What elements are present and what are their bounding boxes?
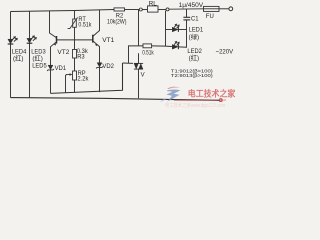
LED2 — [172, 41, 179, 49]
wire LED2 segment left — [166, 45, 172, 47]
wire RP wiper down — [66, 75, 67, 93]
wire VD2 to gate bus — [99, 68, 101, 93]
resistor 0.51k gate — [143, 44, 152, 48]
svg-text:(绿): (绿) — [189, 32, 200, 41]
wire VT1 collector — [93, 10, 99, 36]
LED1 — [172, 24, 179, 32]
wire RP bottom — [74, 80, 76, 93]
resistor R3 — [73, 50, 77, 59]
wire V1 vertical from circle2 — [165, 11, 167, 47]
terminal circle after RL right — [166, 8, 169, 11]
wire LED1 branch left — [166, 29, 172, 31]
terminal circle mains right — [229, 7, 233, 11]
svg-text:VT2: VT2 — [57, 49, 69, 56]
svg-text:电工技术之家: 电工技术之家 — [188, 88, 236, 98]
wire RT top — [74, 11, 76, 20]
wire FU to right terminal — [219, 8, 229, 10]
svg-text:T2:9013(β>100): T2:9013(β>100) — [171, 73, 213, 78]
wire gate stub to triac — [123, 62, 134, 64]
wire LED3 branch upper — [29, 11, 31, 38]
svg-text:RL: RL — [149, 0, 157, 7]
svg-text:(红): (红) — [32, 54, 43, 63]
wire 0.51k to V1 — [152, 45, 166, 47]
wire base rail VT2-VT1 — [57, 39, 93, 41]
svg-text:10k(2W): 10k(2W) — [107, 19, 127, 26]
wire triac MT2 upper — [138, 53, 140, 63]
wire circle1 to RL box — [142, 9, 147, 11]
LED4 — [8, 36, 18, 44]
wire bus drop x138 — [138, 10, 140, 46]
thermistor RT — [68, 17, 78, 28]
transistor VT1 — [93, 35, 98, 47]
wire top bus between R2 and circle1 — [125, 9, 140, 11]
svg-text:VD1: VD1 — [55, 65, 67, 72]
svg-text:(红): (红) — [13, 54, 24, 63]
watermark red swoosh line — [174, 98, 226, 102]
fuse FU — [204, 6, 220, 11]
watermark logo swirl — [160, 87, 181, 103]
wire LED4 branch lower — [10, 44, 12, 98]
svg-text:R3: R3 — [77, 53, 85, 60]
svg-text:LED5: LED5 — [32, 62, 47, 69]
svg-text:FU: FU — [206, 13, 214, 20]
transistor VT2 — [54, 36, 57, 46]
wire LED3 branch lower — [29, 43, 31, 97]
wire gate resistor rail — [129, 46, 144, 63]
svg-text:C1: C1 — [191, 16, 199, 23]
wire bottom bus — [11, 98, 223, 101]
svg-text:0.51k: 0.51k — [78, 22, 91, 29]
wire VD1 to gate bus — [50, 70, 52, 93]
wire circle2 to FU — [169, 8, 204, 10]
svg-text:LED1: LED1 — [189, 27, 204, 34]
zener VD2 — [96, 63, 103, 69]
terminal circle after RL left — [139, 8, 142, 11]
wire top bus left section — [11, 10, 115, 12]
labels — [12, 0, 234, 82]
triac V — [134, 63, 143, 69]
wire LED1 branch right — [179, 29, 187, 31]
wire RL box to circle2 — [158, 9, 166, 11]
wire LED4 branch upper — [10, 12, 12, 40]
wire VT2 emitter to VD1 — [51, 42, 56, 65]
wire R3 to RP — [74, 58, 76, 71]
svg-text:VD2: VD2 — [102, 63, 114, 70]
wire triac MT1 lower — [138, 69, 140, 98]
svg-text:2.2k: 2.2k — [77, 75, 89, 82]
wire C1 top — [186, 9, 188, 17]
resistor R2 — [114, 8, 125, 11]
svg-text:0.51k: 0.51k — [142, 50, 154, 57]
wire middle gate bus — [51, 63, 123, 93]
svg-text:(红): (红) — [189, 53, 200, 62]
svg-text:~220V: ~220V — [216, 48, 234, 55]
wire VT2 collector — [50, 11, 57, 38]
svg-text:V: V — [141, 71, 145, 78]
LED3 — [27, 36, 37, 44]
capacitor C1 — [183, 17, 190, 20]
wire VT1 emitter to VD2 — [93, 41, 99, 62]
svg-text:VT1: VT1 — [102, 37, 114, 44]
resistor RL relay coil — [148, 6, 159, 12]
zener VD1 — [47, 65, 54, 71]
wire LED2 right to corner up — [179, 20, 187, 47]
potentiometer RP — [66, 71, 77, 80]
svg-text:1μ/450V: 1μ/450V — [179, 2, 204, 9]
wire RT bottom to node and R3 — [74, 27, 76, 49]
svg-text:电工技术之家www.dgjs123.com: 电工技术之家www.dgjs123.com — [165, 102, 225, 108]
